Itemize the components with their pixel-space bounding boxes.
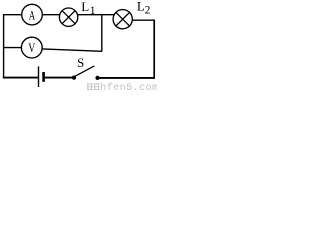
wire right vertical <box>153 20 155 79</box>
battery long plate (+) <box>38 66 40 87</box>
svg-text:A: A <box>29 9 36 23</box>
wire left vertical <box>3 14 5 78</box>
lamp L1 cross <box>62 11 75 24</box>
wire bottom-left to battery <box>3 77 38 79</box>
wire ammeter to lamp L1 <box>42 14 60 16</box>
wire switch to bottom-right corner <box>98 77 155 79</box>
switch S blade <box>75 66 94 76</box>
wire voltmeter branch vertical (node between L1 and L2) <box>101 15 103 52</box>
lamp L2 circle <box>113 10 132 29</box>
svg-text:hfen5.com: hfen5.com <box>100 82 157 91</box>
wire top-left to ammeter <box>3 14 22 16</box>
wire voltmeter branch left <box>3 47 22 49</box>
ammeter A1 circle <box>22 4 43 25</box>
lamp L2 cross <box>116 12 130 26</box>
battery short plate (-) <box>42 72 45 82</box>
switch S right contact <box>95 76 99 80</box>
watermark glyph block 1 <box>87 83 93 90</box>
switch S left contact <box>72 76 76 80</box>
svg-text:2: 2 <box>145 4 151 16</box>
wire lamp L2 to top-right corner <box>132 19 154 21</box>
svg-text:S: S <box>77 55 84 70</box>
svg-text:V: V <box>28 41 35 55</box>
watermark glyph block 2 <box>94 83 100 90</box>
lamp L1 circle <box>59 8 77 26</box>
wire lamp L1 to lamp L2 <box>78 14 115 16</box>
voltmeter V circle <box>21 37 42 58</box>
svg-text:L: L <box>81 0 89 14</box>
wire voltmeter right to branch vertical <box>42 49 102 51</box>
wire battery to switch <box>45 77 73 79</box>
